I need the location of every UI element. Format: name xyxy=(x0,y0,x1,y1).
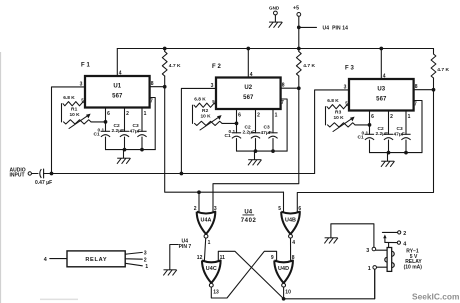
wire +5 feed down to rail xyxy=(298,16,300,48)
wire 6.8K-pot left loop (F3) xyxy=(325,107,327,125)
label F1 xyxy=(81,62,91,68)
node rail-+5 xyxy=(297,47,301,51)
wire ground bus (F2) xyxy=(237,150,288,152)
label 0.1 (F2) xyxy=(229,129,236,135)
label U4 PIN 14 xyxy=(323,26,349,32)
label 4.7K #2 xyxy=(303,63,315,69)
svg-text:C2: C2 xyxy=(114,123,120,129)
node relay pin 1 xyxy=(373,266,377,270)
wire +5 power rail xyxy=(117,48,433,50)
node relay contact 4 xyxy=(397,241,400,244)
ground symbol (F3) xyxy=(381,161,395,167)
svg-text:R1: R1 xyxy=(71,106,78,112)
label F2 xyxy=(212,64,222,70)
svg-text:8: 8 xyxy=(292,255,295,261)
label 6.8K (F1) xyxy=(63,95,75,101)
wire audio line xyxy=(44,173,315,175)
svg-text:47μF: 47μF xyxy=(394,131,405,137)
wire pot to pin6 (F1) xyxy=(91,121,106,123)
label pin 6 (U2) xyxy=(238,113,241,119)
node C3-bus (F2) xyxy=(271,149,275,153)
wire relay terminal 4 xyxy=(50,258,67,260)
label C3 (F2) xyxy=(264,125,270,131)
label 2.2uF (F3) xyxy=(376,131,389,137)
wire GND stub xyxy=(274,15,276,22)
scan artifact left edge xyxy=(0,52,1,303)
node pot-pin6 (F2) xyxy=(235,122,239,126)
label 0.47 uF xyxy=(35,180,52,186)
op-amp U2 567 tone decoder box xyxy=(216,78,281,110)
resistor 4.7K (U1 output) xyxy=(162,49,167,87)
wire U1 output column xyxy=(165,87,284,193)
svg-text:3: 3 xyxy=(214,206,217,212)
ground symbol (F1) xyxy=(117,158,131,164)
svg-text:5: 5 xyxy=(278,206,281,212)
potentiometer R2 10K xyxy=(195,121,223,125)
label RY-1 xyxy=(406,249,419,255)
wire relay actuator stub xyxy=(388,243,390,248)
wire U2 pin2 down xyxy=(255,109,257,133)
label RELAY (RY-1) xyxy=(405,259,422,265)
node audio-U1 xyxy=(50,172,54,176)
svg-text:6: 6 xyxy=(298,206,301,212)
node pin8-4.7K (U2) xyxy=(297,86,301,90)
wire pot to pin6 (F3) xyxy=(355,124,370,126)
wire U4A pin2 drop xyxy=(198,192,200,212)
wire C2 to bus (F3) xyxy=(388,140,390,153)
svg-text:7: 7 xyxy=(150,99,153,105)
node audio input terminal xyxy=(28,172,31,175)
node +5 supply terminal xyxy=(293,6,301,17)
wire pot wiper arrow R1 xyxy=(69,114,91,129)
node audio-U2 xyxy=(180,172,184,176)
gate U4D (NOR latch) xyxy=(274,261,293,288)
svg-text:C1: C1 xyxy=(358,135,364,141)
label pin4 U4B xyxy=(292,240,295,246)
wire C3 to bus (F1) xyxy=(141,137,143,150)
svg-text:0.47 μF: 0.47 μF xyxy=(35,180,52,186)
svg-text:4: 4 xyxy=(44,257,47,263)
wire pot wiper arrow R2 xyxy=(200,115,222,130)
label C1 (F2) xyxy=(225,133,231,139)
node C2-bus (F2) xyxy=(254,149,258,153)
wire U3 pin2 down xyxy=(388,111,390,135)
label R3 xyxy=(335,109,342,115)
label U4 7402 xyxy=(241,210,257,224)
svg-text:6: 6 xyxy=(371,114,374,120)
svg-text:F 3: F 3 xyxy=(345,65,355,71)
wire ground bus (F1) xyxy=(106,149,156,151)
svg-text:1: 1 xyxy=(368,266,371,272)
label R2 xyxy=(202,108,209,114)
svg-text:3: 3 xyxy=(144,251,147,257)
label pin 8 (U1) xyxy=(151,81,154,87)
wire U2 pin1 down xyxy=(272,109,274,133)
resistor 6.8K (F1) xyxy=(63,102,85,106)
label pin 3 (U2) xyxy=(211,83,214,89)
label pin 5 (U1) xyxy=(81,97,84,102)
svg-text:1: 1 xyxy=(144,111,147,117)
label pin 7 (U3) xyxy=(414,102,417,108)
svg-text:2.2μF: 2.2μF xyxy=(376,131,389,137)
wire U2 pin7 to bus xyxy=(281,99,288,151)
wire U4 pin7 stub xyxy=(170,245,179,270)
node rail-U3pin4 xyxy=(379,47,383,51)
svg-text:C3: C3 xyxy=(133,123,139,129)
svg-text:11: 11 xyxy=(220,255,226,261)
wire U1 pin2 down xyxy=(124,108,126,132)
capacitor C3 47uF (F3) xyxy=(401,134,410,140)
node C2-bus (F1) xyxy=(123,148,127,152)
wire relay pin1 down xyxy=(374,269,376,299)
wire U4B pin5 drop xyxy=(283,192,285,212)
label terminal 3 xyxy=(144,251,147,257)
svg-text:R3: R3 xyxy=(335,109,342,115)
wire U4D output down xyxy=(283,287,285,299)
label 6.8K (F2) xyxy=(194,97,206,103)
svg-text:47μF: 47μF xyxy=(261,130,272,136)
label 2.2uF (F1) xyxy=(112,128,125,134)
svg-text:7402: 7402 xyxy=(241,218,257,224)
wire U3 pin7 to bus xyxy=(414,101,422,153)
svg-text:4.7 K: 4.7 K xyxy=(169,63,181,69)
resistor 4.7K (U2 output) xyxy=(296,49,301,89)
svg-text:12: 12 xyxy=(197,255,203,261)
svg-text:6.8 K: 6.8 K xyxy=(63,95,75,101)
node C3-bus (F3) xyxy=(404,151,408,155)
wire U3 output column xyxy=(297,91,433,213)
wire ground stem (F1) xyxy=(123,150,125,159)
label contact 2 xyxy=(403,231,406,237)
capacitor C1 0.1 (F1) xyxy=(101,131,110,137)
wire relay contact 4 line xyxy=(385,241,397,243)
label pin 1 (U1) xyxy=(144,111,147,117)
svg-text:13: 13 xyxy=(213,289,219,295)
wire U3 pin6 down xyxy=(369,111,371,135)
svg-text:9: 9 xyxy=(271,255,274,261)
svg-text:+5: +5 xyxy=(293,6,299,12)
capacitor C3 47uF (F1) xyxy=(137,131,146,137)
label pin 4 (U2) xyxy=(250,72,253,78)
svg-text:R2: R2 xyxy=(202,108,209,114)
svg-text:6.8 K: 6.8 K xyxy=(327,98,339,104)
svg-text:3: 3 xyxy=(366,248,369,254)
label relay pin 1 xyxy=(368,266,371,272)
label terminal 4 xyxy=(44,257,47,263)
label C1 (F3) xyxy=(358,135,364,141)
svg-text:2: 2 xyxy=(403,231,406,237)
wire U3 pin4 riser xyxy=(380,49,382,80)
wire C2 to bus (F2) xyxy=(255,139,257,152)
label pin5 U4B xyxy=(278,206,281,212)
relay RY-1 coil xyxy=(385,248,394,272)
wire U4 pin14 tap xyxy=(299,26,317,28)
svg-text:U1: U1 xyxy=(113,84,121,90)
wire C1 to bus (F2) xyxy=(236,139,238,152)
label pin8b U4D xyxy=(292,255,295,261)
wire C1 to bus (F1) xyxy=(105,137,107,150)
label 2.2uF (F2) xyxy=(243,130,256,136)
svg-text:4.7 K: 4.7 K xyxy=(303,63,315,69)
label terminal 2 xyxy=(144,257,147,263)
wire ground stem (F3) xyxy=(387,153,389,162)
capacitor C2 2.2uF (F1) xyxy=(120,131,129,137)
label pin 8 (U2) xyxy=(282,83,285,89)
svg-text:4.7 K: 4.7 K xyxy=(437,67,449,73)
svg-text:10 K: 10 K xyxy=(334,115,345,121)
svg-text:U4C: U4C xyxy=(206,266,217,272)
svg-text:SeekIC.com: SeekIC.com xyxy=(412,292,459,302)
capacitor C1 0.1 (F2) xyxy=(232,133,241,139)
resistor 6.8K (F2) xyxy=(194,103,216,107)
wire U2 pin3 input xyxy=(181,88,216,173)
wire U4D out cross-couple to U4C pin11 xyxy=(218,251,283,298)
svg-text:7: 7 xyxy=(414,102,417,108)
svg-text:2: 2 xyxy=(144,257,147,263)
label pin6 U4B xyxy=(298,206,301,212)
label C1 (F1) xyxy=(94,132,100,138)
wire U4B out to U4D pin8 xyxy=(290,238,292,260)
label F3 xyxy=(345,65,355,71)
node U4D output junction xyxy=(282,297,286,301)
wire U3 pin8 output xyxy=(414,89,434,91)
wire C3 to bus (F3) xyxy=(405,140,407,153)
label pin 4 (U3) xyxy=(383,74,386,80)
gate U4A (NOR) xyxy=(197,212,216,238)
capacitor C2 2.2uF (F3) xyxy=(384,134,393,140)
svg-text:GND: GND xyxy=(269,5,280,10)
svg-text:567: 567 xyxy=(376,97,387,103)
wire relay terminal 3 xyxy=(125,252,142,254)
wire 6.8K-pot left loop (F1) xyxy=(61,104,63,122)
label terminal 1 xyxy=(145,264,148,270)
svg-text:2: 2 xyxy=(257,113,260,119)
label pin 1 (U3) xyxy=(408,114,411,120)
resistor 4.7K (U3 output) xyxy=(431,49,436,91)
wire audio terminal to cap xyxy=(32,173,39,175)
svg-text:PIN 7: PIN 7 xyxy=(179,244,192,250)
capacitor C3 47uF (F2) xyxy=(268,133,277,139)
label C2 (F2) xyxy=(245,125,251,131)
svg-text:47μF: 47μF xyxy=(130,128,141,134)
label pin 5 (U3) xyxy=(345,100,348,105)
node rail-U2pin4 xyxy=(246,47,250,51)
label pin1 U4A xyxy=(208,240,211,246)
wire relay pin1 to coil xyxy=(377,266,388,268)
node C2-bus (F3) xyxy=(387,151,391,155)
svg-text:INPUT: INPUT xyxy=(10,173,25,179)
node pot-pin6 (F3) xyxy=(368,123,372,127)
ground symbol (F2) xyxy=(248,160,262,166)
label pin 4 (U1) xyxy=(119,71,122,77)
wire U4A out to U4C pin12 xyxy=(204,238,205,260)
wire relay terminal 1 xyxy=(125,263,142,266)
label pin 7 (U2) xyxy=(281,100,284,106)
svg-text:2: 2 xyxy=(126,111,129,117)
svg-text:6: 6 xyxy=(238,113,241,119)
potentiometer R1 10K xyxy=(64,120,92,124)
label C3 (F3) xyxy=(397,126,403,132)
svg-text:10 K: 10 K xyxy=(201,114,212,120)
wire U2 pin4 riser xyxy=(247,49,249,78)
label pin 5 (U2) xyxy=(212,99,215,104)
wire U1 pin3 input xyxy=(52,87,86,174)
label C2 (F3) xyxy=(378,126,384,132)
wire pot wiper arrow R3 xyxy=(333,117,355,132)
svg-text:7: 7 xyxy=(281,100,284,106)
label pin 8 (U3) xyxy=(415,84,418,90)
label 10K (F3) xyxy=(334,115,345,121)
svg-text:C1: C1 xyxy=(94,132,100,138)
label 0.1 (F3) xyxy=(362,131,369,137)
label AUDIO INPUT xyxy=(10,168,26,179)
svg-text:C3: C3 xyxy=(397,126,403,132)
wire U3 pin3 input xyxy=(315,90,349,174)
label 47uF (F1) xyxy=(130,128,141,134)
wire C1 to bus (F3) xyxy=(369,140,371,153)
op-amp U1 567 tone decoder box xyxy=(85,76,150,108)
node U4 pin 14 tap xyxy=(297,26,301,30)
svg-text:2.2μF: 2.2μF xyxy=(243,130,256,136)
wire 6.8K-pot left loop (F2) xyxy=(192,105,194,123)
label pin 2 (U2) xyxy=(257,113,260,119)
svg-text:C3: C3 xyxy=(264,125,270,131)
wire relay ground link xyxy=(331,224,374,247)
label 5V xyxy=(410,254,418,260)
svg-text:F 2: F 2 xyxy=(212,64,222,70)
label relay pin 3 xyxy=(366,248,369,254)
svg-text:U4D: U4D xyxy=(278,266,289,272)
node pin8-4.7K (U1) xyxy=(163,85,167,89)
wire pot to pin6 (F2) xyxy=(222,122,237,124)
label pin12 U4C xyxy=(197,255,203,261)
label 47uF (F2) xyxy=(261,130,272,136)
svg-text:1: 1 xyxy=(145,264,148,270)
label contact 4 xyxy=(403,242,406,248)
svg-text:6.8 K: 6.8 K xyxy=(194,97,206,103)
wire U1 pin6 down xyxy=(105,108,107,132)
svg-text:C2: C2 xyxy=(245,125,251,131)
svg-text:4: 4 xyxy=(292,240,295,246)
svg-text:RELAY: RELAY xyxy=(85,257,107,263)
wire ground bus (F3) xyxy=(370,152,423,154)
svg-text:567: 567 xyxy=(112,94,123,100)
label 47uF (F3) xyxy=(394,131,405,137)
wire C3 to bus (F2) xyxy=(272,139,274,152)
label pin2 U4A xyxy=(194,206,197,212)
potentiometer R3 10K xyxy=(328,123,356,127)
wire U3 pin1 down xyxy=(405,111,407,135)
label R1 xyxy=(71,106,78,112)
svg-text:U4 PIN 14: U4 PIN 14 xyxy=(323,26,349,32)
capacitor C2 2.2uF (F2) xyxy=(251,133,260,139)
label 10 mA xyxy=(404,264,423,270)
svg-text:1: 1 xyxy=(408,114,411,120)
relay RELAY terminal box xyxy=(67,251,125,267)
svg-text:(10 mA): (10 mA) xyxy=(404,264,423,270)
label 0.1 (F1) xyxy=(98,128,105,134)
op-amp U3 567 tone decoder box xyxy=(349,79,414,111)
wire U1 pin4 riser xyxy=(116,49,118,77)
svg-text:U2: U2 xyxy=(244,85,252,91)
label pin 2 (U1) xyxy=(126,111,129,117)
wire U1 pin1 down xyxy=(141,108,143,132)
wire C2 to bus (F1) xyxy=(124,137,126,150)
wire relay pin3 to coil xyxy=(376,249,387,251)
node pot-pin6 (F1) xyxy=(104,120,108,124)
label 10K (F2) xyxy=(201,114,212,120)
scan artifact bottom left xyxy=(40,299,78,301)
label 4.7K #3 xyxy=(437,67,449,73)
label 6.8K (F3) xyxy=(327,98,339,104)
ground terminal GND (top) xyxy=(269,5,280,15)
label pin 2 (U3) xyxy=(390,114,393,120)
svg-text:6: 6 xyxy=(107,111,110,117)
wire U1 pin7 to bus xyxy=(150,98,156,150)
node pin8-4.7K (U3) xyxy=(432,88,436,92)
wire U1 pin8 output xyxy=(150,86,165,88)
wire U2 pin8 output xyxy=(281,87,299,89)
node U1out-U4A2 xyxy=(197,190,201,194)
svg-text:567: 567 xyxy=(243,95,254,101)
wire U2 pin6 down xyxy=(236,109,238,133)
node rail-R1col xyxy=(163,47,167,51)
svg-text:1: 1 xyxy=(208,240,211,246)
wire U4D output to relay coil xyxy=(284,269,375,299)
label pin 7 (U1) xyxy=(150,99,153,105)
svg-text:U3: U3 xyxy=(377,87,385,93)
svg-text:2: 2 xyxy=(390,114,393,120)
label pin 1 (U2) xyxy=(275,113,278,119)
ground symbol (top GND) xyxy=(269,22,283,28)
label 4.7K #1 xyxy=(169,63,181,69)
wire ground stem (F2) xyxy=(254,151,256,160)
label pin10 U4D xyxy=(285,290,291,296)
label pin 3 (U1) xyxy=(80,81,83,87)
label 10K (F1) xyxy=(70,112,81,118)
svg-text:C2: C2 xyxy=(378,126,384,132)
label C3 (F1) xyxy=(133,123,139,129)
label pin 6 (U1) xyxy=(107,111,110,117)
label pin3 U4A xyxy=(214,206,217,212)
node relay pin 3 xyxy=(372,247,376,251)
label pin 6 (U3) xyxy=(371,114,374,120)
gate U4C (NOR latch) xyxy=(202,261,221,288)
svg-text:2.2μF: 2.2μF xyxy=(112,128,125,134)
wire relay pole arrow xyxy=(383,234,386,242)
svg-text:U4B: U4B xyxy=(285,217,296,223)
label C2 (F1) xyxy=(114,123,120,129)
wire relay contact 2 line xyxy=(382,231,397,233)
svg-text:U4A: U4A xyxy=(200,217,211,223)
svg-text:F 1: F 1 xyxy=(81,62,91,68)
node relay contact 2 xyxy=(398,231,401,234)
label pin 3 (U3) xyxy=(344,84,347,90)
svg-text:1: 1 xyxy=(275,113,278,119)
capacitor 0.47uF input coupling xyxy=(40,169,44,178)
node C3-bus (F1) xyxy=(140,148,144,152)
svg-text:4: 4 xyxy=(403,242,406,248)
wire U2 output column xyxy=(213,88,299,212)
wire U4C out cross-couple to U4D pin9 xyxy=(211,251,276,298)
label pin9 U4D xyxy=(271,255,274,261)
svg-text:10: 10 xyxy=(285,290,291,296)
label SeekIC.com watermark xyxy=(412,292,459,302)
gate U4B (NOR) xyxy=(281,212,300,238)
wire relay terminal 2 xyxy=(125,258,142,260)
svg-text:2: 2 xyxy=(194,206,197,212)
resistor 6.8K (F3) xyxy=(327,105,349,109)
